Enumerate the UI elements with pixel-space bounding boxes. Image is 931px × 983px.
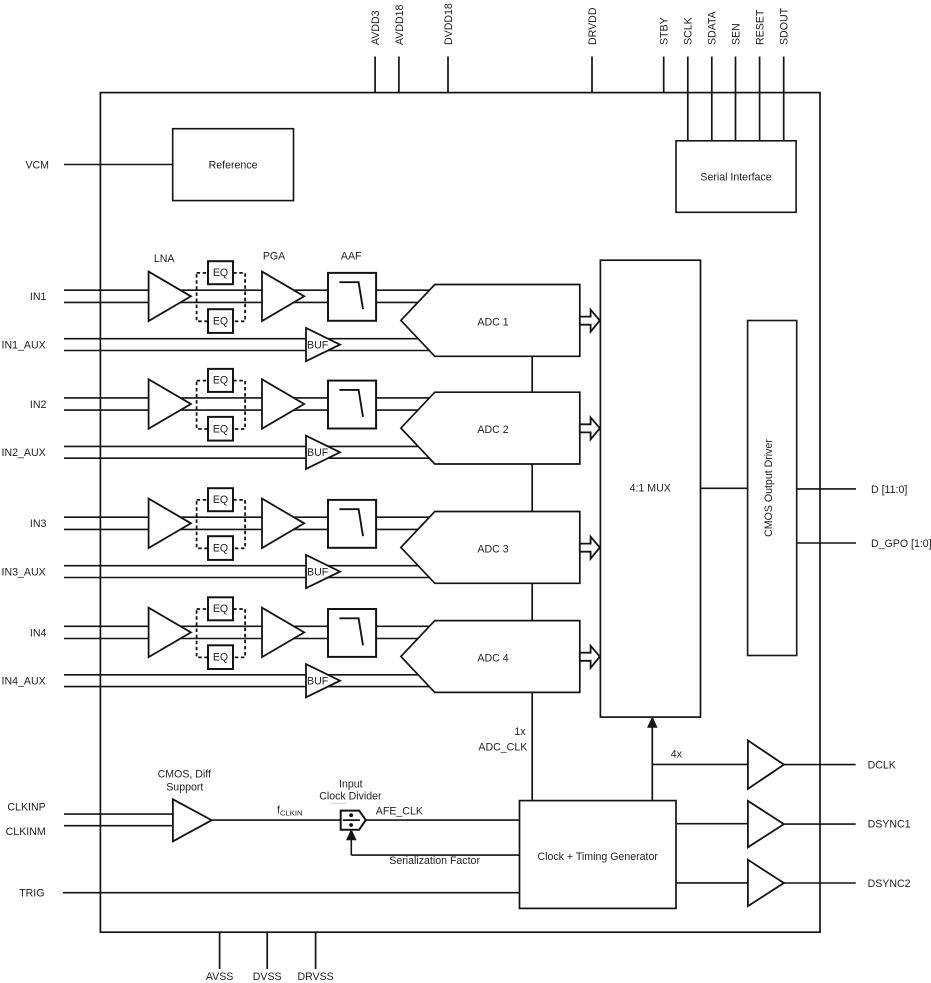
svg-text:DVDD18: DVDD18 bbox=[443, 3, 455, 45]
svg-text:PGA: PGA bbox=[263, 251, 286, 263]
svg-text:RESET: RESET bbox=[755, 9, 767, 45]
svg-text:ADC 3: ADC 3 bbox=[477, 543, 508, 555]
svg-text:ADC_CLK: ADC_CLK bbox=[478, 741, 527, 753]
svg-text:Support: Support bbox=[166, 782, 203, 794]
svg-text:BUF: BUF bbox=[307, 447, 329, 459]
svg-text:SDATA: SDATA bbox=[707, 10, 719, 45]
svg-text:ADC 4: ADC 4 bbox=[477, 652, 508, 664]
svg-text:BUF: BUF bbox=[307, 676, 329, 688]
svg-text:IN4_AUX: IN4_AUX bbox=[2, 676, 46, 688]
svg-text:AAF: AAF bbox=[341, 251, 362, 263]
svg-text:IN4: IN4 bbox=[30, 627, 47, 639]
svg-text:ADC 1: ADC 1 bbox=[477, 316, 508, 328]
svg-text:DRVDD: DRVDD bbox=[587, 7, 599, 45]
svg-text:Clock + Timing Generator: Clock + Timing Generator bbox=[537, 851, 658, 863]
svg-text:CMOS Output Driver: CMOS Output Driver bbox=[763, 439, 775, 537]
svg-text:Clock Divider: Clock Divider bbox=[319, 791, 382, 803]
svg-text:CLKINM: CLKINM bbox=[6, 826, 46, 838]
svg-text:Serial Interface: Serial Interface bbox=[700, 171, 771, 183]
svg-text:BUF: BUF bbox=[307, 340, 329, 352]
svg-text:DSYNC1: DSYNC1 bbox=[868, 819, 911, 831]
svg-text:Reference: Reference bbox=[209, 159, 258, 171]
svg-text:AFE_CLK: AFE_CLK bbox=[376, 805, 423, 817]
svg-text:EQ: EQ bbox=[213, 423, 228, 435]
svg-text:BUF: BUF bbox=[307, 567, 329, 579]
svg-text:AVDD3: AVDD3 bbox=[370, 10, 382, 45]
svg-text:VCM: VCM bbox=[25, 159, 49, 171]
svg-text:EQ: EQ bbox=[213, 603, 228, 615]
svg-text:DSYNC2: DSYNC2 bbox=[868, 878, 911, 890]
svg-text:1x: 1x bbox=[514, 726, 526, 738]
svg-text:CLKINP: CLKINP bbox=[7, 802, 45, 814]
svg-text:IN2_AUX: IN2_AUX bbox=[2, 447, 46, 459]
svg-text:EQ: EQ bbox=[213, 267, 228, 279]
svg-text:EQ: EQ bbox=[213, 375, 228, 387]
svg-text:D [11:0]: D [11:0] bbox=[871, 484, 907, 496]
svg-text:IN1: IN1 bbox=[30, 291, 47, 303]
svg-text:AVSS: AVSS bbox=[206, 971, 233, 983]
svg-text:IN2: IN2 bbox=[30, 399, 47, 411]
svg-text:IN3_AUX: IN3_AUX bbox=[2, 567, 46, 579]
svg-text:AVDD18: AVDD18 bbox=[394, 4, 406, 45]
svg-text:IN1_AUX: IN1_AUX bbox=[2, 340, 46, 352]
svg-text:CMOS, Diff: CMOS, Diff bbox=[158, 768, 211, 780]
svg-text:ADC 2: ADC 2 bbox=[477, 424, 508, 436]
svg-text:EQ: EQ bbox=[213, 494, 228, 506]
svg-text:Input: Input bbox=[339, 779, 363, 791]
svg-text:IN3: IN3 bbox=[30, 518, 47, 530]
svg-text:SCLK: SCLK bbox=[683, 17, 695, 45]
svg-text:DCLK: DCLK bbox=[868, 759, 896, 771]
svg-text:STBY: STBY bbox=[659, 17, 671, 45]
svg-text:EQ: EQ bbox=[213, 316, 228, 328]
svg-text:LNA: LNA bbox=[154, 253, 176, 265]
svg-text:SEN: SEN bbox=[730, 23, 742, 45]
svg-text:EQ: EQ bbox=[213, 652, 228, 664]
svg-text:4:1 MUX: 4:1 MUX bbox=[630, 483, 671, 495]
svg-text:DVSS: DVSS bbox=[253, 971, 282, 983]
svg-text:SDOUT: SDOUT bbox=[779, 7, 791, 45]
svg-text:D_GPO [1:0]: D_GPO [1:0] bbox=[871, 538, 931, 550]
svg-text:4x: 4x bbox=[671, 748, 683, 760]
svg-text:Serialization Factor: Serialization Factor bbox=[389, 855, 480, 867]
svg-text:DRVSS: DRVSS bbox=[297, 971, 333, 983]
svg-text:TRIG: TRIG bbox=[19, 888, 44, 900]
svg-text:EQ: EQ bbox=[213, 543, 228, 555]
